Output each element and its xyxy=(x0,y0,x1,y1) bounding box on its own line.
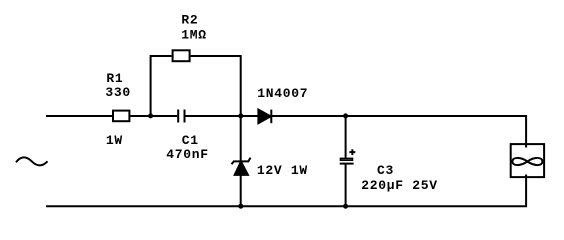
capacitor C3 plus sign xyxy=(349,149,355,155)
resistor R1 xyxy=(113,111,129,122)
wire C3 to bottom rail xyxy=(345,165,347,207)
wire C3 branch top xyxy=(345,116,347,158)
svg-text:R2: R2 xyxy=(181,13,198,28)
node junction bottom of zener xyxy=(238,204,243,209)
svg-text:1MΩ: 1MΩ xyxy=(181,28,207,43)
wire zener to bottom rail xyxy=(240,174,242,206)
wire top rail left segment xyxy=(46,115,112,117)
load box xyxy=(511,144,544,177)
diode D1 1N4007 xyxy=(258,110,270,124)
svg-text:12V 1W: 12V 1W xyxy=(257,163,308,178)
capacitor C1 xyxy=(178,110,184,123)
node junction bottom of C3 xyxy=(343,204,348,209)
load lamp infinity symbol xyxy=(512,158,542,165)
capacitor C3 top plate xyxy=(341,158,353,160)
svg-text:330: 330 xyxy=(105,85,131,100)
zener diode ZD1 body xyxy=(235,162,248,175)
wire junction down to zener xyxy=(240,116,242,161)
node junction top of C3 xyxy=(343,113,348,118)
wire diode to right corner and down to load xyxy=(271,116,526,148)
node junction after C1 xyxy=(238,113,243,118)
svg-text:220µF 25V: 220µF 25V xyxy=(361,178,438,193)
wire R1 to C1 xyxy=(130,115,177,117)
svg-text:R1: R1 xyxy=(106,71,123,86)
AC source squiggle xyxy=(16,157,48,165)
svg-text:C3: C3 xyxy=(377,163,394,178)
capacitor C3 bottom plate xyxy=(340,163,354,165)
wire bottom rail xyxy=(46,175,526,207)
wire R2 branch left vertical and top xyxy=(151,56,172,116)
svg-text:C1: C1 xyxy=(182,133,199,148)
wire R2 right to junction xyxy=(191,56,241,116)
wire C1 to diode xyxy=(186,115,259,117)
resistor R2 xyxy=(173,50,190,61)
svg-text:1N4007: 1N4007 xyxy=(257,86,308,101)
zener diode ZD1 cathode bar xyxy=(232,158,251,165)
svg-text:470nF: 470nF xyxy=(166,147,209,162)
svg-text:1W: 1W xyxy=(106,133,123,148)
node junction after R1 xyxy=(148,113,153,118)
